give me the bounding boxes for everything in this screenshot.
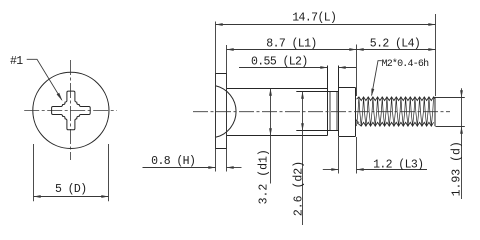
svg-text:1.93 (d): 1.93 (d) xyxy=(450,141,463,196)
svg-text:5.2 (L4): 5.2 (L4) xyxy=(370,38,420,51)
svg-text:5 (D): 5 (D) xyxy=(55,183,87,196)
svg-text:3.2 (d1): 3.2 (d1) xyxy=(258,149,271,204)
svg-text:#1: #1 xyxy=(10,55,23,68)
svg-text:8.7 (L1): 8.7 (L1) xyxy=(266,38,316,51)
svg-text:1.2 (L3): 1.2 (L3) xyxy=(373,159,423,172)
svg-text:2.6 (d2): 2.6 (d2) xyxy=(292,161,305,216)
svg-text:0.8 (H): 0.8 (H) xyxy=(151,155,195,168)
svg-text:0.55 (L2): 0.55 (L2) xyxy=(251,56,308,69)
svg-text:M2*0.4-6h: M2*0.4-6h xyxy=(382,58,430,70)
svg-text:14.7(L): 14.7(L) xyxy=(292,12,336,25)
